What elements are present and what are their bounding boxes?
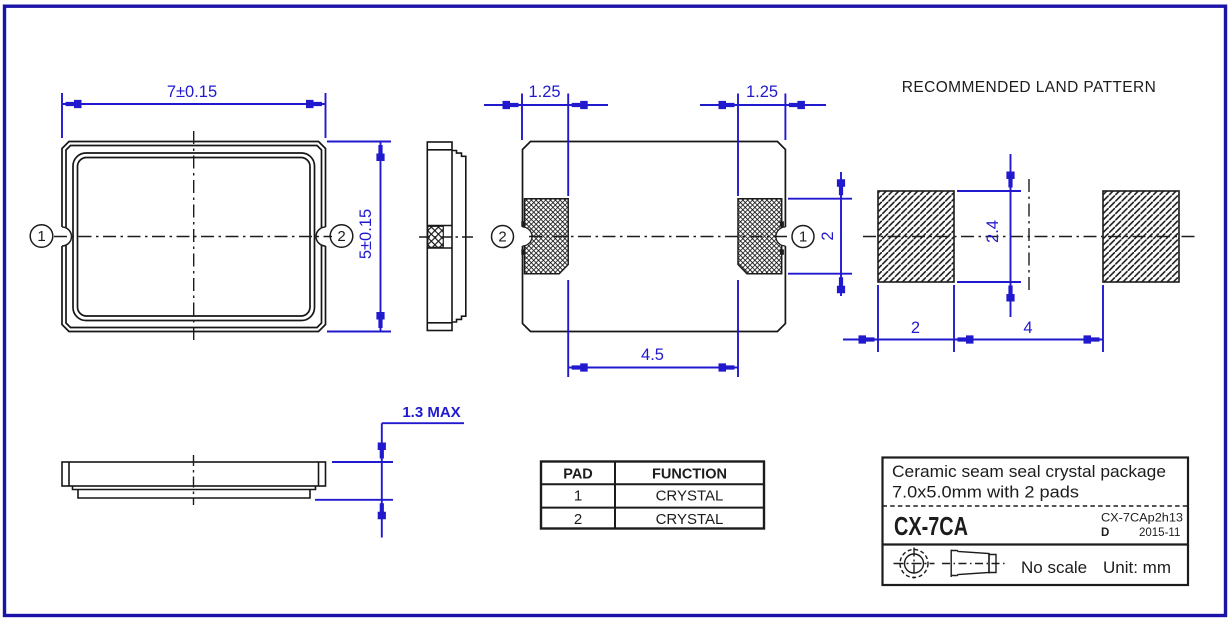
svg-text:No scale: No scale	[1021, 558, 1087, 577]
svg-text:4: 4	[1023, 319, 1032, 337]
svg-text:5±0.15: 5±0.15	[357, 209, 375, 259]
svg-text:1.3 MAX: 1.3 MAX	[402, 404, 460, 421]
svg-text:Unit: mm: Unit: mm	[1103, 558, 1171, 577]
svg-text:CX-7CA: CX-7CA	[894, 511, 968, 541]
svg-text:2: 2	[911, 319, 920, 337]
svg-text:CRYSTAL: CRYSTAL	[656, 511, 724, 528]
svg-text:1: 1	[574, 488, 582, 505]
svg-text:1.25: 1.25	[528, 83, 560, 101]
svg-text:1: 1	[37, 228, 45, 245]
svg-text:2: 2	[498, 229, 506, 246]
svg-text:2: 2	[574, 511, 582, 528]
svg-text:7.0x5.0mm with 2 pads: 7.0x5.0mm with 2 pads	[892, 483, 1079, 502]
svg-text:2: 2	[819, 231, 837, 240]
svg-text:RECOMMENDED LAND PATTERN: RECOMMENDED LAND PATTERN	[902, 79, 1156, 96]
svg-text:FUNCTION: FUNCTION	[652, 467, 727, 483]
svg-text:1.25: 1.25	[746, 83, 778, 101]
svg-text:1: 1	[799, 229, 807, 246]
svg-text:4.5: 4.5	[641, 346, 664, 364]
svg-text:2015-11: 2015-11	[1139, 527, 1180, 539]
svg-text:Ceramic seam seal crystal pack: Ceramic seam seal crystal package	[892, 462, 1166, 481]
svg-text:CX-7CAp2h13: CX-7CAp2h13	[1101, 513, 1183, 525]
svg-text:D: D	[1101, 527, 1109, 539]
svg-text:2: 2	[337, 228, 345, 245]
svg-text:PAD: PAD	[563, 467, 593, 483]
svg-text:2.4: 2.4	[984, 220, 1002, 243]
svg-text:CRYSTAL: CRYSTAL	[656, 488, 724, 505]
svg-text:7±0.15: 7±0.15	[167, 83, 217, 101]
